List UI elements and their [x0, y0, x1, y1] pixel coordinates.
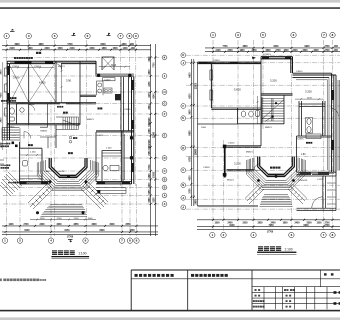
svg-text:2400: 2400 — [89, 47, 95, 50]
misc window lines top — [10, 62, 96, 103]
room label bedroom top — [270, 76, 277, 82]
top dimension line tier1 left plan — [2, 45, 151, 47]
svg-text:2850: 2850 — [257, 223, 263, 225]
right dim column ticks — [150, 57, 157, 206]
top grey band — [0, 0, 340, 3]
svg-text:M1221: M1221 — [58, 66, 65, 68]
bay corner dots right plan — [257, 179, 260, 182]
bottom dimension ticks right plan — [212, 219, 334, 228]
svg-text:2100: 2100 — [57, 218, 63, 220]
svg-text:2100: 2100 — [74, 218, 80, 220]
wall poche top segments — [15, 61, 32, 64]
bottom dimension ticks — [5, 225, 138, 233]
svg-text:3270: 3270 — [149, 92, 151, 98]
master bedroom window sill — [298, 172, 334, 174]
room label study — [66, 75, 73, 82]
svg-text:1500: 1500 — [40, 218, 46, 220]
svg-text:13380: 13380 — [153, 131, 155, 138]
svg-text:2400: 2400 — [44, 47, 50, 50]
svg-text:17700: 17700 — [267, 232, 274, 234]
stair label up — [275, 102, 277, 104]
axis circle 9 top — [133, 33, 138, 38]
door arc hall — [24, 132, 31, 139]
svg-text:3600: 3600 — [189, 109, 191, 115]
svg-text:1800: 1800 — [282, 223, 288, 225]
label bottom left small — [8, 182, 9, 183]
left text stack 1 — [1, 143, 11, 147]
svg-text:3750: 3750 — [189, 188, 191, 194]
upper dim chain right wing — [295, 98, 323, 100]
svg-text:2700: 2700 — [324, 50, 330, 52]
octagon room right plan walls — [258, 157, 295, 177]
svg-text:K: K — [164, 56, 166, 60]
partition small hall — [40, 137, 56, 148]
interior dim top wing — [99, 66, 130, 68]
axis circle 6 bottom right plan — [289, 232, 294, 237]
svg-text:C3015: C3015 — [296, 71, 303, 73]
svg-text:1.250: 1.250 — [30, 152, 36, 154]
right dim column line1 — [150, 44, 152, 236]
bathroom walls right plan — [198, 108, 263, 124]
left wall window box 1 — [5, 68, 8, 76]
bottom dimension line tier1 right plan — [197, 219, 340, 221]
left wall window box 3 — [5, 108, 8, 116]
svg-text:4500: 4500 — [188, 175, 191, 181]
column dot B — [128, 74, 131, 77]
far left vertical dim text — [0, 69, 3, 148]
svg-text:8850: 8850 — [189, 130, 191, 136]
bottom dimension line tier1 — [2, 225, 158, 227]
right axis circle K — [162, 193, 167, 198]
living void window line — [199, 63, 212, 108]
bay column dot R — [85, 180, 88, 183]
svg-text:4800: 4800 — [38, 43, 44, 46]
room label bay void — [270, 167, 272, 169]
master bedroom walls right plan — [297, 136, 337, 176]
side wall poche segments — [7, 66, 10, 75]
svg-text:2.600: 2.600 — [44, 171, 50, 173]
stairwell treads right plan — [262, 99, 284, 122]
bedroom door arc mid — [254, 164, 260, 171]
room label living void — [231, 85, 241, 91]
far left dim line — [2, 62, 4, 150]
right axis circle H — [162, 169, 167, 174]
kitchen counter top wing — [97, 81, 104, 95]
svg-text:4800: 4800 — [148, 182, 151, 188]
bottom grey band — [0, 317, 340, 320]
svg-text:B: B — [164, 178, 166, 182]
svg-text:M0921: M0921 — [265, 127, 272, 129]
svg-text:C: C — [164, 169, 166, 173]
outer wall top right wing — [96, 61, 134, 76]
bay step ring 2 right plan — [251, 159, 302, 185]
svg-text:2400: 2400 — [227, 49, 233, 52]
svg-text:4.500: 4.500 — [39, 80, 46, 84]
svg-text:2280: 2280 — [149, 128, 151, 134]
header underline seal cells — [131, 278, 252, 280]
bottom sill lines — [22, 182, 129, 184]
axis centerlines horizontal grid right plan — [186, 55, 340, 209]
svg-text:1500: 1500 — [112, 48, 118, 50]
axis circle 7 bottom — [119, 238, 124, 243]
wall segment below kitchen — [80, 95, 96, 96]
svg-text:5730: 5730 — [149, 164, 151, 170]
void left wall window boxes — [210, 70, 213, 80]
bay step ring 4 right plan — [247, 160, 306, 189]
axis circle 3 top — [26, 33, 31, 38]
right dim column line2 — [154, 44, 156, 236]
svg-text:1500: 1500 — [57, 48, 63, 50]
svg-text:7700: 7700 — [222, 46, 228, 48]
svg-text:3300: 3300 — [313, 50, 319, 52]
right axis circle F — [162, 133, 167, 138]
svg-text:3450: 3450 — [148, 81, 151, 87]
svg-text:1800: 1800 — [239, 50, 245, 52]
right axis circle A — [162, 55, 167, 60]
door poche blobs hall — [12, 142, 15, 145]
svg-text:3600: 3600 — [91, 224, 97, 226]
signature table row lines — [252, 293, 340, 304]
bay column dot L — [49, 180, 52, 183]
left text stack 2 — [1, 164, 11, 168]
bottom dimension line tier3 right plan — [197, 229, 340, 231]
svg-text:C1818: C1818 — [203, 167, 210, 169]
svg-text:E: E — [164, 134, 166, 138]
svg-text:2400: 2400 — [39, 223, 45, 226]
table divider seal cells — [188, 270, 252, 310]
master window poche — [300, 172, 311, 175]
right axis circle I — [162, 177, 167, 182]
top dimension line tier2 left plan — [2, 49, 151, 51]
top dimension ticks left plan — [6, 45, 137, 51]
svg-text:D: D — [164, 156, 166, 160]
corridor walls wing — [121, 77, 129, 131]
projecting bay X brace — [102, 57, 114, 70]
svg-text:3.90: 3.90 — [66, 78, 72, 82]
svg-text:2400: 2400 — [292, 49, 298, 52]
interior partition kitchen wall — [96, 131, 134, 182]
svg-text:3900: 3900 — [14, 44, 20, 46]
svg-text:C: C — [182, 168, 184, 172]
svg-text:2100: 2100 — [9, 48, 15, 50]
svg-text:2700: 2700 — [324, 225, 330, 227]
svg-text:6750: 6750 — [189, 156, 191, 162]
right edge partial chars — [334, 291, 340, 305]
svg-text:3810: 3810 — [149, 104, 151, 110]
dense label block mid — [85, 142, 116, 148]
svg-text:C2415: C2415 — [297, 139, 304, 141]
room label bedroom — [13, 72, 20, 79]
bottom dimension numbers — [8, 223, 135, 239]
left edge axis stub — [0, 160, 4, 164]
svg-text:1:100: 1:100 — [78, 251, 86, 255]
octagon window band — [60, 175, 77, 176]
bay sub dimension line — [30, 219, 96, 221]
bay bottom treads right plan — [260, 195, 293, 207]
right section project column divider — [320, 270, 322, 287]
octagon dining room walls — [49, 158, 87, 178]
bay center dot — [67, 175, 70, 178]
left wall window box 2 — [5, 84, 8, 92]
svg-text:3.200: 3.200 — [234, 162, 241, 166]
svg-text:7950: 7950 — [268, 225, 274, 227]
svg-text:3.200: 3.200 — [305, 90, 312, 94]
balcony railing lines — [327, 183, 336, 204]
interior wall hall — [20, 125, 57, 182]
room label hall living — [63, 112, 65, 114]
interior wall horizontal lower — [7, 124, 80, 125]
hall sink fixture — [23, 161, 28, 167]
signature mid column labels — [284, 289, 294, 307]
bottom outer wall — [20, 182, 132, 184]
svg-text:TLM1023: TLM1023 — [298, 180, 308, 182]
svg-text:3600: 3600 — [265, 50, 271, 52]
svg-text:B: B — [164, 186, 166, 190]
interior partition v1 — [17, 61, 29, 125]
left outer wall — [7, 61, 9, 140]
closet lines hall — [20, 150, 42, 181]
upper bath walls right plan — [299, 101, 325, 136]
note text — [0, 279, 2, 282]
svg-text:3800: 3800 — [149, 69, 151, 75]
right section top row lines — [252, 279, 340, 287]
left plan title 一层平面 1:100 — [51, 250, 89, 258]
misc small labels right plan — [201, 54, 308, 182]
balcony door arc — [312, 197, 323, 208]
svg-text:2400: 2400 — [294, 222, 300, 225]
column dot E — [97, 190, 100, 193]
bedroom walls mid right plan — [227, 124, 262, 171]
svg-text:1800: 1800 — [101, 48, 107, 50]
interior staircase treads — [63, 117, 78, 130]
axis circle 3 top right plan — [235, 32, 240, 37]
svg-text:19650: 19650 — [196, 148, 198, 155]
svg-text:3300: 3300 — [302, 50, 308, 52]
room X brace bedroom — [10, 66, 29, 102]
axis circle 9 bottom — [134, 238, 139, 243]
header text unit seal — [135, 274, 138, 277]
svg-text:1:100: 1:100 — [284, 247, 292, 251]
axis circle 1 bottom — [2, 238, 7, 243]
svg-text:M0921: M0921 — [246, 152, 253, 154]
axis circle 2 bottom — [17, 238, 22, 243]
sheet bottom border line — [0, 310, 340, 312]
bay step ring 1b — [44, 161, 92, 184]
top right room bottom wall — [261, 94, 293, 95]
svg-text:1.250: 1.250 — [106, 148, 112, 150]
svg-text:-0.020: -0.020 — [58, 171, 65, 173]
master room inner sill — [298, 136, 332, 138]
right axis circle E — [162, 112, 167, 117]
room label master — [301, 137, 323, 161]
top wing wall grey band — [96, 74, 134, 77]
left dim column lines right plan — [191, 59, 197, 206]
axis circle 6 top right plan — [291, 32, 296, 37]
svg-text:1650: 1650 — [149, 189, 151, 195]
svg-text:M0921: M0921 — [87, 119, 94, 121]
kitchen counter — [102, 134, 132, 180]
bay diag flight left side — [245, 184, 264, 204]
svg-text:1500: 1500 — [283, 50, 289, 52]
projecting bay top — [102, 57, 114, 70]
svg-text:2100: 2100 — [307, 97, 313, 99]
svg-text:3150: 3150 — [153, 197, 155, 203]
svg-text:3300: 3300 — [56, 224, 62, 226]
svg-text:C1215: C1215 — [317, 179, 324, 181]
signature table column lines — [264, 287, 327, 310]
top wall sill right plan — [199, 58, 291, 63]
axis circle 4 bottom — [48, 238, 53, 243]
svg-text:C1515: C1515 — [228, 143, 235, 145]
right axis circle G — [162, 156, 167, 161]
sheet top border line — [0, 7, 340, 9]
bay diag flight right side — [288, 184, 307, 204]
octagon right plan window band — [268, 174, 285, 175]
window labels row — [8, 66, 65, 173]
bay step ring 1 — [46, 160, 91, 182]
section marker arrow top mid — [107, 33, 111, 36]
right edge window detail — [338, 80, 340, 170]
svg-text:2190: 2190 — [149, 117, 151, 123]
svg-text:3900: 3900 — [1, 69, 3, 75]
svg-text:1500: 1500 — [88, 218, 94, 220]
axis circle 6 bottom — [83, 238, 88, 243]
cornice inner lines — [296, 78, 329, 172]
svg-text:1890: 1890 — [149, 173, 151, 179]
text row above mid wall — [1, 100, 16, 102]
room label bath — [9, 97, 11, 99]
svg-text:2100: 2100 — [69, 48, 75, 50]
svg-text:2550: 2550 — [242, 223, 248, 225]
room label kitchen — [98, 107, 100, 109]
svg-text:9000: 9000 — [273, 46, 279, 48]
axis centerlines horizontal grid left plan — [3, 58, 160, 205]
bay bottom treads — [41, 205, 88, 217]
svg-text:1200: 1200 — [122, 48, 128, 50]
bottom dimension numbers right plan — [214, 222, 330, 234]
interior dim chain rooms top — [10, 67, 54, 69]
svg-text:2280: 2280 — [149, 150, 151, 156]
bay column dot bottomL — [36, 211, 39, 214]
left dim column numbers right plan — [188, 72, 197, 205]
right dim column numbers rotated — [148, 56, 156, 203]
svg-text:M1021: M1021 — [227, 180, 234, 182]
right axis circle C — [162, 90, 167, 95]
svg-text:1200: 1200 — [8, 224, 14, 226]
upper bath fixtures — [307, 119, 311, 125]
svg-text:1500: 1500 — [316, 223, 322, 225]
dense text block top right wing — [121, 67, 148, 73]
svg-text:1500: 1500 — [214, 223, 220, 225]
axis circle 1 bottom right plan — [210, 232, 215, 237]
interior partition v3 — [79, 61, 81, 125]
top dimension numbers left plan — [9, 43, 135, 50]
axis circle 7 top right plan — [321, 32, 326, 37]
bay step ring 2b — [40, 162, 95, 188]
axis circle 8 bottom right plan — [330, 232, 335, 237]
svg-text:G: G — [163, 102, 165, 106]
right axis circle J — [162, 185, 167, 190]
svg-text:K: K — [182, 53, 184, 57]
header text personal seal — [191, 274, 194, 277]
room label family hall — [303, 87, 312, 93]
axis circle 5 top — [52, 33, 57, 38]
bay step ring 2b right plan — [249, 159, 302, 186]
svg-text:2550: 2550 — [125, 224, 131, 226]
window box below wing wall — [103, 78, 116, 81]
axis circle 4 bottom right plan — [251, 232, 256, 237]
left axis circle row right plan — [181, 53, 186, 58]
svg-text:C2424: C2424 — [12, 66, 19, 68]
room label porch small — [36, 52, 38, 54]
bay step ring 2 — [42, 161, 94, 185]
svg-text:C2424: C2424 — [213, 60, 220, 62]
svg-text:C2424: C2424 — [34, 66, 41, 68]
room label bedroom mid — [234, 159, 241, 165]
svg-text:1500: 1500 — [201, 127, 207, 129]
room label hall — [28, 144, 30, 146]
svg-text:B: B — [182, 183, 184, 187]
svg-text:6150: 6150 — [64, 230, 70, 232]
axis circle 8 top right plan — [330, 32, 335, 37]
svg-text:7700: 7700 — [153, 62, 155, 68]
axis circle 8 bottom — [127, 238, 132, 243]
axis circle 5 top right plan — [260, 32, 265, 37]
right plan title 二层平面 1:100 — [257, 246, 296, 254]
svg-text:1560: 1560 — [149, 197, 151, 203]
svg-text:3.600: 3.600 — [13, 75, 20, 79]
axis circle 7 bottom right plan — [321, 232, 326, 237]
svg-text:3.200: 3.200 — [270, 79, 277, 83]
svg-text:2190: 2190 — [149, 139, 151, 145]
bay step ring 4 — [37, 163, 99, 191]
svg-text:9900: 9900 — [304, 46, 310, 48]
interior dim chain horizontal hall — [20, 128, 42, 156]
top dimension line tier2 right plan — [205, 51, 340, 53]
corner tick mark top left — [10, 29, 15, 32]
svg-text:A: A — [164, 194, 166, 198]
svg-text:2100: 2100 — [215, 50, 221, 52]
top right room walls — [261, 57, 293, 73]
svg-text:3000: 3000 — [109, 224, 115, 226]
svg-text:C2415: C2415 — [104, 79, 111, 81]
kitchen fixture circle — [103, 165, 108, 170]
fixture text blob — [306, 142, 308, 144]
top dimension line tier1 right plan — [205, 47, 340, 49]
bath door arc — [29, 105, 35, 111]
svg-text:6000: 6000 — [100, 44, 106, 46]
bay left diagonal flight — [28, 183, 53, 209]
entry steps left — [2, 128, 20, 141]
axis circle 1 top right plan — [210, 32, 215, 37]
bay right diagonal flight — [81, 182, 108, 209]
top wall right plan left wing — [198, 62, 262, 64]
far left step flight — [0, 172, 22, 196]
right axis circle D — [162, 101, 167, 106]
right wing cornice walls — [293, 73, 337, 176]
svg-text:LC2415: LC2415 — [263, 54, 271, 56]
door arc top — [56, 64, 62, 70]
left dim column ticks right plan — [190, 62, 195, 198]
balcony below master — [297, 176, 337, 211]
svg-text:4800: 4800 — [242, 45, 248, 48]
label annotation top — [14, 57, 16, 59]
table outer top border — [131, 269, 340, 271]
svg-text:1800: 1800 — [121, 44, 127, 46]
project label text — [324, 273, 327, 275]
outer wall top left wing — [7, 61, 96, 63]
column dot A — [97, 74, 100, 77]
